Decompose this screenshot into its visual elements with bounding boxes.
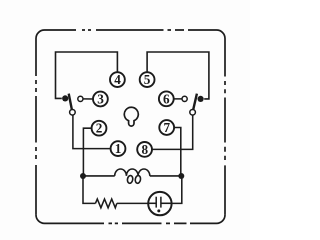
pin 8 [137,142,152,157]
NO contact (right, pin 6 side) [182,96,187,101]
pin 4 [110,72,125,87]
NC contact point (right, on pin-5 wire) [198,96,204,102]
socket keyway [124,107,138,126]
svg-text:5: 5 [144,72,151,87]
contact arm (right pole) [193,94,197,113]
wire: pin 8 to right pivot [152,115,193,149]
pin 1 [111,141,126,156]
wire: lamp up to right junction [172,176,182,203]
wire: pin 1 to left pivot [73,115,111,149]
pin 7 [159,120,174,135]
contact arm (left pole) [69,94,73,113]
svg-text:6: 6 [163,91,170,106]
svg-text:1: 1 [115,141,122,156]
wire: pin 7 down to coil junction [174,128,181,174]
pin 2 [92,121,107,136]
svg-text:4: 4 [114,72,121,87]
wire: pin 4 up and over to left NC contact [56,52,118,98]
enclosure outline [36,30,225,223]
pin 3 [93,92,108,107]
wire: pin 2 down to coil junction [83,128,91,173]
pin 5 [140,72,155,87]
wire: resistor to lamp [117,202,149,204]
pivot (right pole) [190,110,196,116]
wire: pin 6 to right NO contact [174,98,182,100]
coil L (between junctions) [83,169,181,184]
pin 6 [159,91,174,106]
junction (left coil node) [80,173,86,179]
svg-text:7: 7 [164,120,171,135]
resistor R [95,199,116,208]
neon lamp (indicator) [148,192,171,215]
junction (right coil node) [178,173,184,179]
NC contact point (left, on pin-4 wire) [62,95,68,101]
svg-text:3: 3 [97,92,104,107]
wire: left junction down to resistor [83,176,95,203]
svg-text:8: 8 [142,142,149,157]
NO contact (left, pin 3 side) [78,96,83,101]
svg-text:2: 2 [96,121,103,136]
wire: pin 5 up and over to right NC contact [147,52,209,99]
pivot (left pole) [70,110,76,116]
wire: left NO contact to pin 3 [83,98,93,100]
